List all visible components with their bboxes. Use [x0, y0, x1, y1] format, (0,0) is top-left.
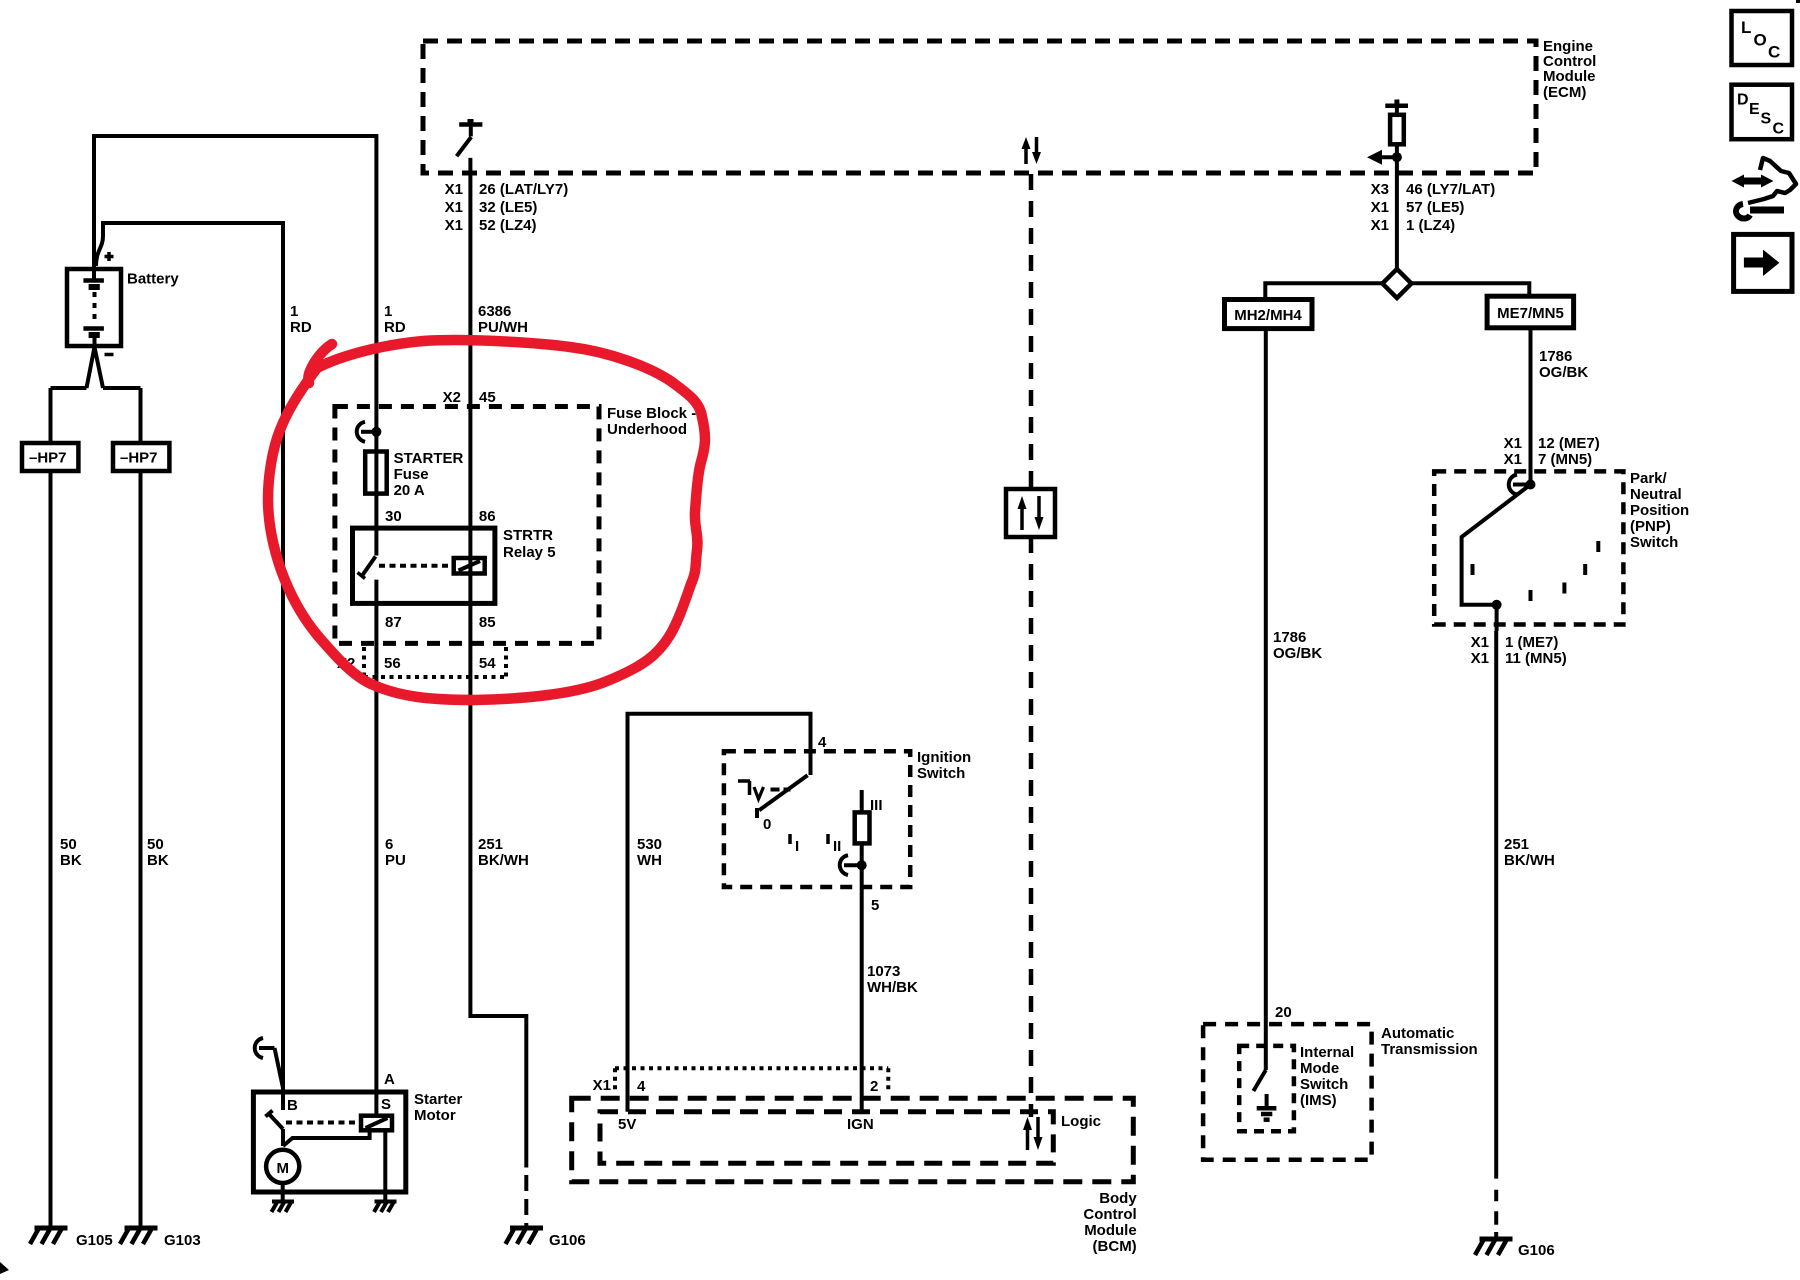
svg-text:M: M — [276, 1160, 289, 1177]
svg-text:E: E — [1749, 101, 1760, 118]
svg-text:ME7/MN5: ME7/MN5 — [1497, 305, 1564, 322]
ignition switch dashed box — [724, 751, 910, 887]
svg-text:Fuse Block -: Fuse Block - — [607, 405, 696, 422]
svg-text:1786: 1786 — [1273, 629, 1306, 646]
relay pin 85/86 wire through coil down (251 BK/WH) — [470, 528, 526, 1168]
svg-text:6: 6 — [385, 836, 393, 853]
svg-text:D: D — [1737, 92, 1749, 109]
svg-text:PU/WH: PU/WH — [478, 319, 528, 336]
svg-text:Motor: Motor — [414, 1107, 456, 1124]
inline connector on fuse feed — [357, 422, 382, 442]
svg-text:50: 50 — [147, 836, 164, 853]
svg-text:52 (LZ4): 52 (LZ4) — [479, 217, 537, 234]
ground G105 — [30, 1228, 68, 1244]
svg-text:Battery: Battery — [127, 271, 179, 288]
svg-text:Starter: Starter — [414, 1091, 463, 1108]
svg-text:G105: G105 — [76, 1232, 113, 1249]
svg-text:BK: BK — [60, 852, 82, 869]
svg-text:L: L — [1741, 18, 1751, 37]
svg-text:X1: X1 — [1371, 217, 1389, 234]
svg-text:–HP7: –HP7 — [120, 450, 158, 467]
svg-text:1786: 1786 — [1539, 348, 1572, 365]
svg-text:Control: Control — [1083, 1206, 1136, 1223]
svg-text:30: 30 — [385, 508, 402, 525]
ground G103 — [120, 1228, 158, 1244]
ignition inline connector — [840, 855, 867, 875]
wire 6386 PU/WH from ECM to fuse block — [468, 158, 472, 528]
svg-text:1: 1 — [290, 303, 298, 320]
svg-text:46 (LY7/LAT): 46 (LY7/LAT) — [1406, 181, 1495, 198]
svg-text:RD: RD — [290, 319, 312, 336]
svg-text:BK/WH: BK/WH — [478, 852, 529, 869]
svg-text:87: 87 — [385, 614, 402, 631]
connector row X1 4 2 dotted — [615, 1068, 888, 1090]
IMS ground — [1257, 1094, 1277, 1120]
boxed bidirectional arrows symbol — [1006, 489, 1055, 537]
svg-text:86: 86 — [479, 508, 496, 525]
ground starter motor left — [272, 1202, 295, 1213]
ECM dashed box Engine Control Module — [423, 41, 1536, 173]
svg-text:OG/BK: OG/BK — [1539, 364, 1588, 381]
wire 251 BK/WH right down — [1494, 631, 1498, 1179]
svg-text:C: C — [1768, 43, 1780, 62]
icon next arrow — [1734, 234, 1792, 291]
wire 1073 WH/BK ignition pin 5 to BCM IGN — [860, 865, 864, 1111]
svg-text:45: 45 — [479, 389, 496, 406]
IMS switch arm — [1253, 1070, 1265, 1091]
annotation red circle — [268, 340, 705, 700]
bidirectional arrows at ECM — [1022, 137, 1042, 164]
arrow to serial line — [1367, 150, 1402, 165]
PNP switch dashed box — [1434, 471, 1623, 624]
svg-text:7 (MN5): 7 (MN5) — [1538, 451, 1592, 468]
svg-text:WH/BK: WH/BK — [867, 979, 918, 996]
svg-text:251: 251 — [478, 836, 503, 853]
relay actuation dashed link — [379, 564, 452, 568]
bidirectional arrows in BCM logic — [1023, 1117, 1043, 1150]
svg-text:RD: RD — [384, 319, 406, 336]
svg-text:X1: X1 — [1471, 650, 1489, 667]
svg-text:G106: G106 — [549, 1232, 586, 1249]
icon LOC — [1732, 11, 1793, 65]
svg-text:1073: 1073 — [867, 963, 900, 980]
wire 251 BK/WH dashed to ground — [524, 1175, 528, 1228]
svg-text:(IMS): (IMS) — [1300, 1092, 1337, 1109]
svg-text:Relay 5: Relay 5 — [503, 544, 556, 561]
svg-text:6386: 6386 — [478, 303, 511, 320]
starter solenoid switch arm — [266, 1111, 284, 1130]
PNP inline connector — [1509, 475, 1536, 495]
IMS dashed box — [1239, 1046, 1294, 1131]
svg-text:BK/WH: BK/WH — [1504, 852, 1555, 869]
fuse STARTER Fuse 20 A — [365, 452, 387, 494]
svg-text:2: 2 — [870, 1078, 878, 1095]
svg-text:(BCM): (BCM) — [1093, 1238, 1137, 1255]
position mark V — [754, 787, 764, 799]
relay pin 87 wire down to starter motor S (6 PU) — [374, 580, 378, 1116]
svg-text:STARTER: STARTER — [394, 450, 464, 467]
svg-text:S: S — [381, 1096, 391, 1113]
svg-text:OG/BK: OG/BK — [1273, 645, 1322, 662]
svg-text:Neutral: Neutral — [1630, 486, 1682, 503]
svg-text:BK: BK — [147, 852, 169, 869]
annotation red tail — [308, 344, 332, 383]
position mark I — [788, 834, 792, 844]
svg-text:(ECM): (ECM) — [1543, 84, 1586, 101]
connector -HP7 left — [22, 443, 78, 471]
svg-text:Switch: Switch — [1630, 534, 1678, 551]
svg-text:1 (ME7): 1 (ME7) — [1505, 634, 1558, 651]
svg-text:STRTR: STRTR — [503, 527, 553, 544]
fuse block dashed box Fuse Block - Underhood — [335, 407, 599, 644]
svg-text:Park/: Park/ — [1630, 470, 1668, 487]
svg-text:26 (LAT/LY7): 26 (LAT/LY7) — [479, 181, 568, 198]
ground G106 right — [1475, 1239, 1513, 1255]
svg-text:20 A: 20 A — [394, 482, 425, 499]
svg-text:B: B — [287, 1097, 298, 1114]
ground starter motor right — [374, 1202, 397, 1213]
junction dot PNP output — [1492, 600, 1502, 610]
svg-text:54: 54 — [479, 655, 496, 672]
wire 1786 OG/BK from MH2/MH4 down to IMS — [1264, 329, 1268, 1070]
ignition switch lever — [757, 775, 808, 818]
svg-text:32 (LE5): 32 (LE5) — [479, 199, 537, 216]
page corner mark top right — [1796, 0, 1800, 3]
svg-text:A: A — [384, 1071, 395, 1088]
svg-text:G106: G106 — [1518, 1242, 1555, 1259]
switch inside ECM (driver output) — [457, 119, 483, 156]
svg-text:IGN: IGN — [847, 1116, 874, 1133]
relay switch arm — [358, 528, 377, 579]
wire 1786 OG/BK from ME7/MN5 down to PNP — [1529, 328, 1533, 485]
svg-text:Logic: Logic — [1061, 1113, 1101, 1130]
starter solenoid coil — [361, 1116, 392, 1131]
svg-text:50: 50 — [60, 836, 77, 853]
svg-text:C: C — [1773, 121, 1785, 138]
starter actuation dashed link — [286, 1121, 360, 1125]
wire diamond to ME7/MN5 — [1411, 283, 1529, 296]
PNP switch arm wire — [1462, 485, 1531, 632]
svg-text:Module: Module — [1543, 68, 1596, 85]
svg-text:X1: X1 — [445, 181, 463, 198]
svg-text:X3: X3 — [1371, 181, 1389, 198]
svg-text:X1: X1 — [1371, 199, 1389, 216]
wire ECM crank request down to diamond — [1395, 157, 1399, 269]
svg-text:I: I — [795, 838, 799, 855]
BCM outer dashed box Body Control Module — [572, 1098, 1134, 1181]
relay coil — [454, 558, 485, 574]
connector box ME7/MN5 — [1487, 296, 1574, 328]
svg-text:5V: 5V — [618, 1116, 636, 1133]
svg-text:X1: X1 — [445, 217, 463, 234]
svg-text:Underhood: Underhood — [607, 421, 687, 438]
svg-text:4: 4 — [637, 1078, 646, 1095]
BCM logic inner dashed box — [600, 1112, 1053, 1164]
starter motor inline connector — [255, 1038, 283, 1088]
svg-text:4: 4 — [818, 734, 827, 751]
svg-text:Position: Position — [1630, 502, 1689, 519]
serial data dashed line ECM to BCM — [1029, 174, 1034, 1117]
svg-text:Mode: Mode — [1300, 1060, 1339, 1077]
wire battery negative split — [51, 347, 141, 443]
connector row X2 56 54 dotted — [364, 647, 506, 677]
svg-text:12 (ME7): 12 (ME7) — [1538, 435, 1600, 452]
svg-text:(PNP): (PNP) — [1630, 518, 1671, 535]
svg-text:X1: X1 — [445, 199, 463, 216]
connector box MH2/MH4 — [1225, 300, 1313, 329]
diamond splice node — [1382, 269, 1411, 298]
svg-text:Fuse: Fuse — [394, 466, 429, 483]
connector -HP7 right — [113, 443, 169, 471]
svg-text:85: 85 — [479, 614, 496, 631]
icon DESC — [1732, 85, 1793, 140]
wire arm to motor — [283, 1129, 370, 1146]
wire 530 WH corner to ignition switch pin 4 — [628, 714, 811, 1112]
automatic transmission dashed box — [1203, 1024, 1372, 1160]
svg-text:Switch: Switch — [917, 765, 965, 782]
wire 50 BK left — [49, 471, 53, 1228]
svg-text:G103: G103 — [164, 1232, 201, 1249]
svg-text:X1: X1 — [1504, 451, 1522, 468]
position mark lock — [738, 781, 750, 795]
svg-text:S: S — [1761, 111, 1772, 128]
svg-text:X1: X1 — [1504, 435, 1522, 452]
wire dashed to ground G106 right — [1494, 1190, 1498, 1239]
ECM resistor output — [1385, 100, 1408, 158]
svg-text:Transmission: Transmission — [1381, 1041, 1478, 1058]
battery plus sign — [105, 252, 114, 261]
ignition resistor — [855, 790, 870, 865]
starter motor box Starter Motor — [253, 1092, 405, 1192]
svg-text:530: 530 — [637, 836, 662, 853]
wire 50 BK right — [139, 471, 143, 1228]
svg-text:Switch: Switch — [1300, 1076, 1348, 1093]
svg-text:Module: Module — [1084, 1222, 1137, 1239]
svg-text:57 (LE5): 57 (LE5) — [1406, 199, 1464, 216]
PNP position ticks — [1473, 541, 1599, 601]
svg-text:PU: PU — [385, 852, 406, 869]
svg-text:MH2/MH4: MH2/MH4 — [1234, 307, 1302, 324]
svg-text:Ignition: Ignition — [917, 749, 971, 766]
battery Battery — [67, 269, 121, 346]
wire diamond to MH2/MH4 — [1265, 283, 1382, 299]
svg-text:X1: X1 — [1471, 634, 1489, 651]
icon hotlink arrows — [1732, 158, 1797, 219]
svg-text:X2: X2 — [443, 389, 461, 406]
ground G106 left — [506, 1228, 544, 1244]
svg-text:X1: X1 — [593, 1077, 611, 1094]
svg-text:–HP7: –HP7 — [29, 450, 67, 467]
svg-text:20: 20 — [1275, 1004, 1292, 1021]
svg-text:0: 0 — [763, 816, 771, 833]
svg-text:251: 251 — [1504, 836, 1529, 853]
svg-text:Automatic: Automatic — [1381, 1025, 1454, 1042]
motor M — [266, 1150, 299, 1183]
svg-text:Body: Body — [1099, 1190, 1137, 1207]
wire motor to ground — [281, 1183, 285, 1201]
svg-text:O: O — [1754, 31, 1767, 50]
svg-text:Internal: Internal — [1300, 1044, 1354, 1061]
wire battery positive to starter motor B (1 RD) — [96, 223, 283, 1110]
svg-text:5: 5 — [871, 897, 879, 914]
svg-text:11 (MN5): 11 (MN5) — [1505, 650, 1567, 667]
battery minus sign — [105, 353, 114, 357]
position mark II — [826, 834, 830, 844]
position dashes — [771, 788, 791, 792]
svg-text:56: 56 — [384, 655, 401, 672]
page corner mark — [0, 1262, 9, 1274]
svg-text:II: II — [833, 838, 841, 855]
svg-text:1 (LZ4): 1 (LZ4) — [1406, 217, 1455, 234]
svg-text:WH: WH — [637, 852, 662, 869]
svg-text:III: III — [870, 797, 883, 814]
relay STRTR Relay 5 box — [353, 528, 495, 603]
wire battery positive to starter fuse (1 RD) — [94, 136, 376, 431]
wire coil to ground — [383, 1130, 387, 1201]
svg-text:1: 1 — [384, 303, 392, 320]
